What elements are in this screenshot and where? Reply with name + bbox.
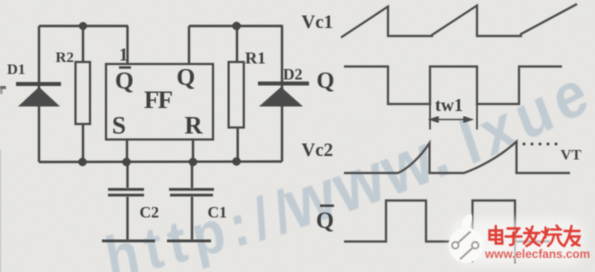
wire: C1 bottom lead xyxy=(191,197,193,241)
elecfans logo chinese text: 发 xyxy=(524,227,540,247)
junction node: bottom of R2 xyxy=(78,158,86,166)
wire: FF S pin lead to C2 node xyxy=(126,140,128,163)
ground bar under C2 xyxy=(102,240,155,243)
junction node: bottom of R1 xyxy=(232,157,240,165)
flip-flop U1 FF body xyxy=(106,64,213,140)
tw1 measurement extension ticks xyxy=(430,104,477,130)
scan artifact: left edge faint line xyxy=(0,150,1,272)
junction node: S / C2 xyxy=(122,158,130,166)
diode D2 xyxy=(258,82,309,107)
junction node: top of R1 xyxy=(232,22,240,30)
waveform Q square wave xyxy=(344,67,562,105)
wire: C2 bottom lead xyxy=(126,197,128,241)
waveform Vc2 exponential ramps xyxy=(344,142,570,174)
capacitor C1 xyxy=(169,188,214,197)
wire: C2 top lead xyxy=(126,162,128,188)
wire: bottom rail xyxy=(39,160,282,163)
wire: R2 bottom lead xyxy=(82,124,84,162)
resistor R2 xyxy=(76,62,91,124)
waveform Vc1 sawtooth xyxy=(341,4,577,38)
waveform Q-bar square wave xyxy=(344,201,550,242)
resistor R1 xyxy=(229,62,244,128)
wire: FF Q-bar pin lead xyxy=(126,26,128,64)
wire: FF Q pin lead xyxy=(188,26,190,64)
wire: C1 top lead xyxy=(191,162,193,188)
watermark http://www.lxue xyxy=(100,53,595,272)
tw2 measurement extension ticks (under logo) xyxy=(473,242,516,264)
elecfans logo white halo xyxy=(451,219,583,264)
wire: R1 top lead xyxy=(236,26,238,62)
ground bar under C1 xyxy=(167,240,211,243)
wire: right top rail xyxy=(189,25,283,27)
wire: D2 branch vertical xyxy=(281,26,283,162)
scan artifact: left edge mark xyxy=(0,86,6,94)
junction node: R / C1 xyxy=(189,158,197,166)
VT threshold dotted line xyxy=(523,143,558,146)
junction node: top of R2 xyxy=(79,22,87,30)
capacitor C2 xyxy=(108,188,144,197)
tw1 dimension arrow xyxy=(431,117,472,122)
wire: D1 branch vertical xyxy=(38,26,40,162)
wire: R2 top lead xyxy=(82,26,84,62)
pin label Q-bar xyxy=(115,66,134,94)
elecfans logo chinese text: 烧 xyxy=(542,226,565,247)
elecfans logo chinese text: 子 xyxy=(506,229,522,246)
waveform label Q-bar xyxy=(316,205,334,234)
elecfans logo chinese text: 友 xyxy=(565,226,580,246)
elecfans logo chinese text: 电 xyxy=(490,226,503,244)
elecfans logo icon xyxy=(449,214,484,263)
wire: left top rail xyxy=(39,25,128,27)
wire: R1 bottom lead xyxy=(236,128,238,162)
wire: FF R pin lead to C1 node xyxy=(192,140,194,163)
diode D1 xyxy=(16,82,61,107)
